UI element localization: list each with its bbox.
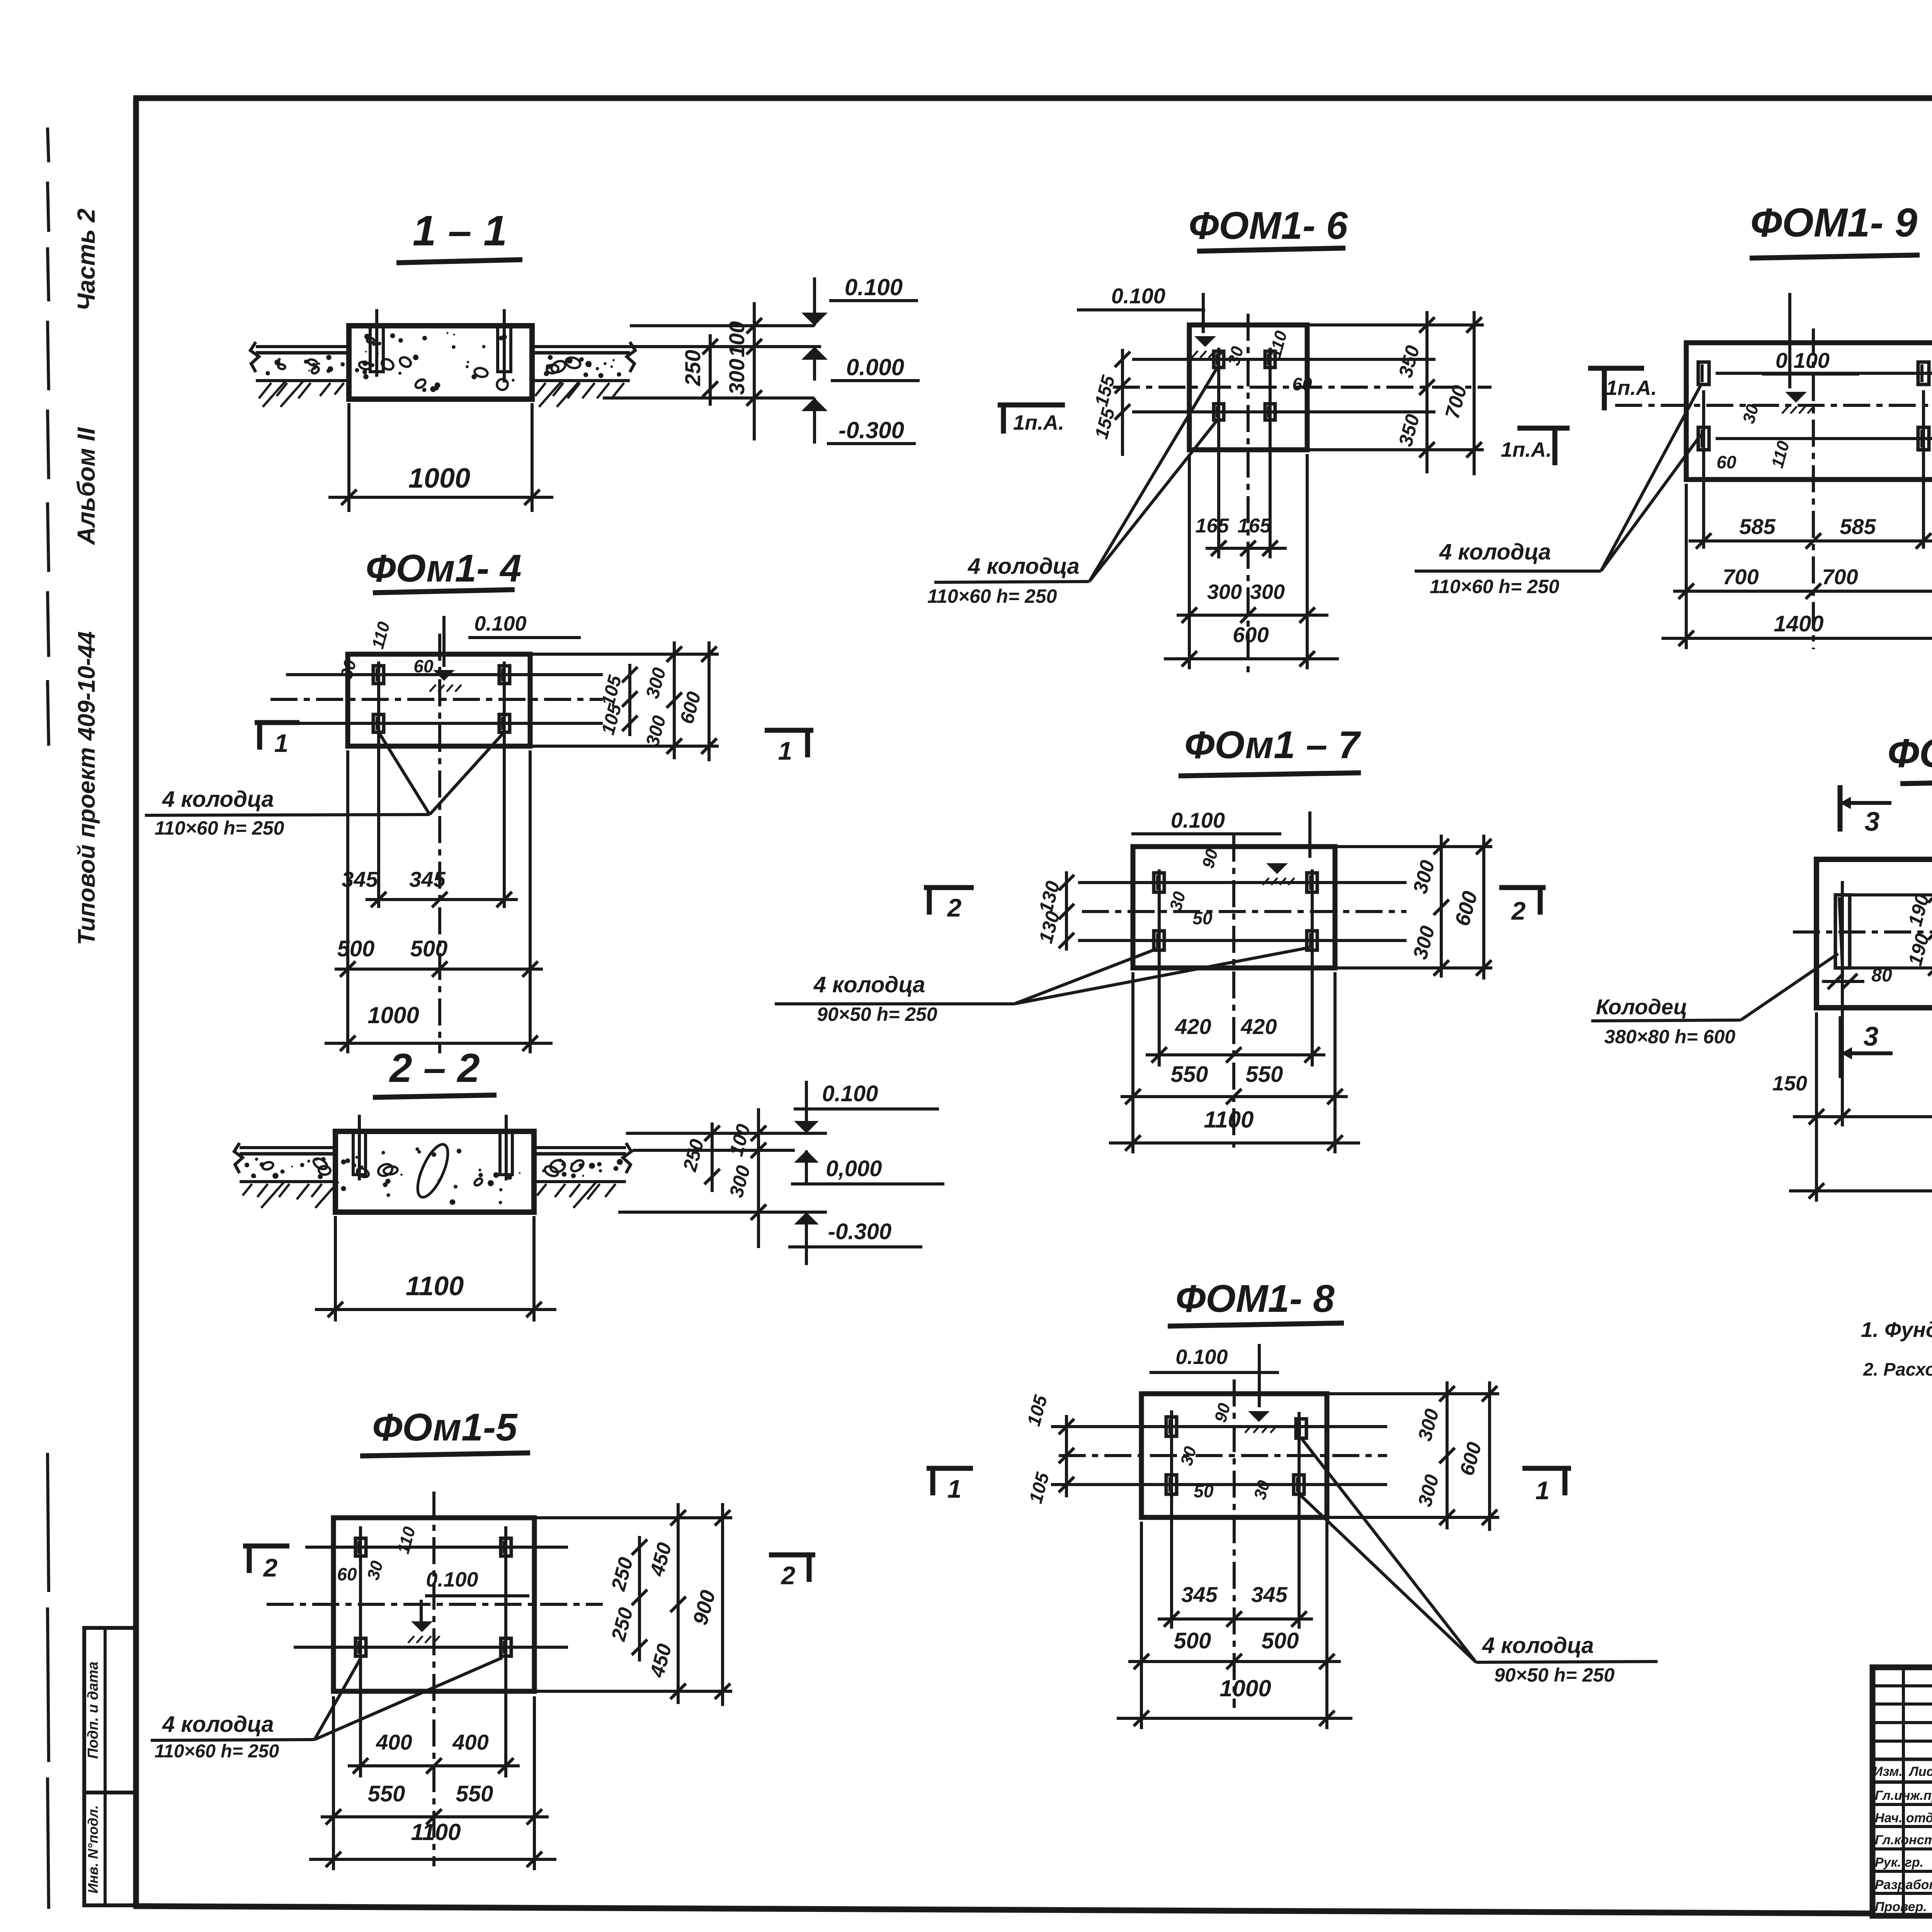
svg-text:550: 550 <box>368 1781 405 1806</box>
plan FOm1-7 bottom dim 1100 <box>1109 1141 1360 1145</box>
svg-text:100: 100 <box>724 321 749 357</box>
svg-text:Инв. N°подл.: Инв. N°подл. <box>85 1805 101 1893</box>
section 1-1 level line 0.000 <box>630 345 821 348</box>
svg-text:1: 1 <box>1536 1476 1550 1505</box>
plan FOM1-6 right dim chain 350 350 <box>1425 311 1429 473</box>
svg-text:165: 165 <box>1238 515 1272 537</box>
svg-text:550: 550 <box>1171 1062 1208 1087</box>
svg-text:250: 250 <box>680 350 705 386</box>
svg-text:0.100: 0.100 <box>1776 348 1830 372</box>
svg-text:Колодец: Колодец <box>1596 995 1687 1019</box>
plan FOM1-8 right dim chain 300 300 <box>1446 1381 1449 1529</box>
plan FOM1-10 bottom dim chain 150 1900 150 <box>1793 1115 1932 1118</box>
plan FOM1-6 bottom dim chain 165 165 <box>1206 547 1287 550</box>
plan FOm1-4 slab rectangle <box>348 654 530 746</box>
plan FOm1-5 bottom dim chain 400 400 <box>348 1764 520 1767</box>
section 1-1 dimension 250 <box>709 334 712 406</box>
plan FOm1-4 section mark 1 right <box>765 728 813 733</box>
plan FOm1-5 right dim 900 <box>721 1503 724 1706</box>
plan FOM1-9 wells <box>1698 362 1709 384</box>
section 1-1 dimension 1000 <box>347 403 350 512</box>
plan FOm1-7 section mark 2 right <box>1499 885 1546 890</box>
svg-text:0.100: 0.100 <box>474 612 526 635</box>
svg-text:60: 60 <box>1716 452 1736 472</box>
title block upper small rows <box>1872 1684 1932 1687</box>
plan FOM1-10 centerline <box>1793 930 1932 934</box>
plan FOM1-8 slab rectangle <box>1141 1394 1327 1517</box>
svg-text:1 – 1: 1 – 1 <box>413 207 507 255</box>
section 2-2 foundation block <box>335 1131 534 1212</box>
section 1-1 elevation mark 0.100 <box>813 277 816 326</box>
plan FOm1-5 wells <box>355 1538 366 1556</box>
plan FOm1-4 bottom dim chain 500 500 <box>335 968 543 971</box>
plan FOm1-7 well axis lines <box>1078 881 1406 884</box>
svg-text:2: 2 <box>263 1553 278 1582</box>
svg-text:345: 345 <box>1251 1582 1287 1607</box>
svg-text:50: 50 <box>1192 908 1213 928</box>
svg-text:Разработ.: Разработ. <box>1875 1878 1932 1892</box>
plan FOm1-4 well axis lines <box>286 673 603 676</box>
margin box Подп. и дата <box>84 1628 136 1793</box>
svg-text:0,000: 0,000 <box>826 1156 882 1181</box>
svg-text:Гл.инж.пр.: Гл.инж.пр. <box>1875 1788 1932 1803</box>
svg-text:1: 1 <box>778 736 793 765</box>
svg-text:Провер.: Провер. <box>1875 1900 1927 1914</box>
svg-text:1000: 1000 <box>367 1002 419 1028</box>
title block signature rows <box>1872 1803 1932 1806</box>
plan FOm1-4 right dim 600 <box>707 641 711 761</box>
svg-text:0.100: 0.100 <box>845 274 903 300</box>
svg-text:Гл.конст.пр: Гл.конст.пр <box>1875 1833 1932 1847</box>
svg-text:1. Фундаменты замаркированы: 1. Фундаменты замаркированы на листах КЖ… <box>1861 1318 1932 1342</box>
svg-text:90×50 h= 250: 90×50 h= 250 <box>817 1003 937 1025</box>
svg-text:1400: 1400 <box>1774 611 1823 636</box>
plan FOM1-8 bottom dim 1000 <box>1117 1717 1352 1720</box>
svg-text:ФОМ1- 8: ФОМ1- 8 <box>1175 1277 1335 1320</box>
plan FOM1-6 bottom dim 600 <box>1164 657 1339 660</box>
svg-text:1000: 1000 <box>1219 1675 1271 1701</box>
plan FOm1-4 section mark 1 left <box>255 720 299 725</box>
svg-text:ФОМ1- 6: ФОМ1- 6 <box>1189 204 1348 247</box>
plan FOM1-6 well axis lines <box>1132 358 1435 361</box>
drawing frame top border <box>133 95 1932 101</box>
section 2-2 elevation -0.300 <box>794 1212 819 1225</box>
svg-text:60: 60 <box>337 1564 357 1584</box>
plan FOM1-6 right dim 700 <box>1473 311 1476 475</box>
plan FOM1-9 section mark left <box>1588 366 1644 371</box>
plan FOM1-6 section mark left <box>998 403 1065 408</box>
plan FOM1-8 section mark 1 left <box>927 1466 973 1471</box>
plan FOm1-5 right dim chain 250 250 <box>638 1536 641 1662</box>
svg-text:ФОм1 – 7: ФОм1 – 7 <box>1184 723 1361 767</box>
svg-text:2 – 2: 2 – 2 <box>389 1046 480 1091</box>
svg-text:4 колодца: 4 колодца <box>968 554 1080 579</box>
svg-text:Подп. и дата: Подп. и дата <box>85 1662 101 1759</box>
plan FOM1-10 section mark 3 bottom <box>1839 1016 1844 1078</box>
section 1-1 dimensions 100 and 300 <box>753 302 756 440</box>
svg-text:585: 585 <box>1739 514 1776 539</box>
section 1-1 left anchor well <box>370 327 383 372</box>
svg-text:0.100: 0.100 <box>426 1568 478 1591</box>
section 2-2 elevation 0.100 <box>805 1081 808 1132</box>
plan FOm1-4 centerlines <box>270 698 603 701</box>
plan FOM1-6 left dim chain 155 155 <box>1121 349 1124 456</box>
section 1-1 right anchor well <box>498 327 511 372</box>
plan FOM1-8 section mark 1 right <box>1522 1466 1571 1471</box>
title block left table verticals <box>1902 1667 1905 1916</box>
title block outer frame <box>1872 1667 1932 1916</box>
plan FOM1-9 slab rectangle <box>1686 343 1932 480</box>
svg-text:345: 345 <box>1181 1582 1218 1607</box>
svg-text:500: 500 <box>337 936 375 961</box>
svg-text:550: 550 <box>456 1781 493 1806</box>
plan FOm1-5 well axis lines <box>305 1546 568 1549</box>
section 2-2 elevation 0.000 <box>794 1150 819 1163</box>
svg-text:60: 60 <box>413 656 434 676</box>
svg-text:110×60 h= 250: 110×60 h= 250 <box>927 585 1057 607</box>
plan FOM1-8 well axis lines <box>1051 1425 1387 1428</box>
plan FOm1-7 section mark 2 left <box>924 885 974 890</box>
plan FOm1-7 right dim 600 <box>1482 835 1485 980</box>
svg-text:2: 2 <box>781 1561 796 1590</box>
svg-text:1: 1 <box>947 1475 962 1503</box>
svg-text:1100: 1100 <box>1204 1107 1253 1133</box>
plan FOm1-5 section mark 2 left <box>243 1544 289 1549</box>
svg-text:585: 585 <box>1840 514 1876 539</box>
plan FOM1-10 bottom dim 2200 <box>1789 1189 1932 1192</box>
svg-text:80: 80 <box>1871 965 1892 986</box>
svg-text:Рук. гр.: Рук. гр. <box>1875 1855 1923 1870</box>
svg-text:1п.А.: 1п.А. <box>1013 411 1064 434</box>
svg-text:Типовой проект 409-10-44: Типовой проект 409-10-44 <box>73 631 100 946</box>
svg-text:345: 345 <box>409 867 446 891</box>
svg-text:-0.300: -0.300 <box>838 417 904 443</box>
section 2-2 dim 250 <box>711 1122 714 1192</box>
svg-text:600: 600 <box>1233 622 1269 647</box>
svg-text:90×50 h= 250: 90×50 h= 250 <box>1494 1664 1615 1686</box>
plan FOm1-7 right dim chain 300 300 <box>1440 835 1443 978</box>
svg-text:1100: 1100 <box>406 1271 464 1301</box>
section 1-1 right floor slab <box>532 345 630 348</box>
plan FOM1-10 left well <box>1835 895 1850 968</box>
plan FOM1-9 bottom dim chain 700 700 <box>1673 590 1932 593</box>
svg-text:0.100: 0.100 <box>1175 1345 1228 1369</box>
plan FOM1-6 section mark right <box>1517 426 1570 431</box>
plan FOM1-9 bottom dim chain 585 585 <box>1689 539 1932 543</box>
section 2-2 right anchor well <box>500 1133 512 1175</box>
svg-text:420: 420 <box>1240 1014 1277 1039</box>
svg-text:110×60 h= 250: 110×60 h= 250 <box>1430 576 1560 597</box>
section 1-1 level line -0.300 <box>603 396 815 400</box>
plan FOM1-6 centerlines <box>1113 386 1492 389</box>
svg-text:500: 500 <box>1262 1628 1299 1653</box>
plan FOM1-6 bottom dim chain 300 300 <box>1177 614 1328 617</box>
svg-text:700: 700 <box>1723 565 1759 589</box>
svg-text:0.100: 0.100 <box>822 1081 878 1106</box>
svg-text:400: 400 <box>376 1730 412 1754</box>
plan FOm1-4 bottom dim 1000 <box>325 1042 553 1045</box>
svg-text:110×60 h= 250: 110×60 h= 250 <box>155 1741 279 1762</box>
drawing frame bottom border <box>133 1906 1872 1913</box>
svg-text:Часть 2: Часть 2 <box>72 209 100 311</box>
plan FOM1-10 well axes <box>1841 881 1844 1126</box>
svg-text:300: 300 <box>1250 580 1285 604</box>
plan FOM1-8 right dim 600 <box>1488 1381 1491 1531</box>
svg-text:0.100: 0.100 <box>1171 808 1225 832</box>
drawing frame left border <box>133 98 139 1908</box>
plan FOM1-8 centerlines <box>1059 1454 1387 1457</box>
plan FOm1-7 wells <box>1154 873 1164 892</box>
plan FOm1-7 bottom dim chain 550 550 <box>1121 1095 1348 1098</box>
svg-text:2. Расход бетона на листе: 2. Расход бетона на листе КЖ-24. <box>1863 1359 1932 1379</box>
svg-text:1000: 1000 <box>408 463 470 494</box>
svg-text:110×60 h= 250: 110×60 h= 250 <box>155 817 284 839</box>
plan FOm1-5 right dim chain 450 450 <box>677 1503 680 1704</box>
section 2-2 level lines <box>626 1132 827 1135</box>
section 2-2 right floor slab <box>534 1146 626 1149</box>
title block header row line <box>1872 1758 1932 1761</box>
svg-text:-0.300: -0.300 <box>828 1219 891 1244</box>
svg-text:2: 2 <box>947 893 962 922</box>
plan FOM1-6 slab rectangle <box>1189 325 1307 450</box>
section 1-1 level line 0.100 <box>630 324 815 327</box>
svg-text:4 колодца: 4 колодца <box>813 972 925 997</box>
plan FOm1-7 bottom dim chain 420 420 <box>1146 1053 1325 1056</box>
plan FOM1-10 left well dim 80 <box>1822 980 1864 983</box>
margin box Инв. № подл. <box>84 1793 136 1905</box>
svg-text:1п.А.: 1п.А. <box>1606 376 1657 400</box>
svg-text:Нач. отд.: Нач. отд. <box>1875 1811 1932 1825</box>
svg-text:Альбом II: Альбом II <box>72 427 100 546</box>
svg-text:4 колодца: 4 колодца <box>162 787 274 812</box>
plan FOm1-5 bottom dim chain 550 550 <box>321 1815 549 1818</box>
plan FOm1-4 bottom dim chain 345 345 <box>366 898 518 901</box>
svg-text:4 колодца: 4 колодца <box>1439 539 1551 565</box>
svg-text:165: 165 <box>1196 515 1230 537</box>
plan FOm1-5 centerlines <box>267 1603 603 1606</box>
plan FOm1-5 bottom dim 1100 <box>309 1858 556 1861</box>
plan FOM1-8 bottom dim chain 500 500 <box>1128 1660 1341 1663</box>
svg-text:3: 3 <box>1864 1021 1879 1051</box>
plan FOm1-7 slab rectangle <box>1133 847 1335 968</box>
plan FOM1-6 wells <box>1214 351 1224 367</box>
plan FOm1-7 left dim chain 130 130 <box>1065 871 1068 951</box>
plan FOm1-5 section mark 2 right <box>769 1553 815 1558</box>
svg-text:1п.А.: 1п.А. <box>1501 438 1552 461</box>
svg-text:50: 50 <box>1194 1481 1214 1501</box>
plan FOm1-4 right dim chain 105 105 <box>628 664 631 736</box>
plan FOm1-4 right dim chain 300 300 <box>673 641 676 759</box>
svg-text:Изм.: Изм. <box>1873 1764 1903 1779</box>
plan FOM1-9 bottom dim 1400 <box>1662 637 1932 640</box>
svg-text:0.000: 0.000 <box>846 354 904 380</box>
plan FOM1-8 wells <box>1166 1417 1177 1436</box>
svg-text:300: 300 <box>1207 580 1242 604</box>
plan FOm1-7 centerlines <box>1082 910 1406 913</box>
section 1-1 foundation block <box>349 326 532 399</box>
plan FOM1-8 bottom dim chain 345 345 <box>1158 1617 1313 1621</box>
section 2-2 dimension 1100 <box>334 1216 337 1321</box>
section 2-2 left floor slab <box>240 1146 335 1149</box>
svg-text:700: 700 <box>1822 565 1858 589</box>
svg-text:500: 500 <box>1174 1628 1211 1653</box>
section 2-2 left anchor well <box>353 1133 366 1175</box>
svg-text:ФОМ1- 10: ФОМ1- 10 <box>1888 731 1932 776</box>
svg-text:150: 150 <box>1772 1072 1807 1095</box>
section 1-1 elevation mark -0.300 <box>813 398 816 444</box>
plan FOM1-9 centerlines <box>1615 404 1932 407</box>
plan FOM1-10 section mark 3 top <box>1838 785 1843 832</box>
plan FOm1-5 slab rectangle <box>333 1518 534 1691</box>
svg-text:Лист: Лист <box>1908 1764 1932 1779</box>
section 1-1 left floor slab <box>256 345 349 348</box>
plan FOm1-4 wells <box>373 666 384 684</box>
svg-text:2: 2 <box>1511 896 1526 925</box>
svg-text:500: 500 <box>410 936 448 961</box>
svg-text:3: 3 <box>1865 806 1880 837</box>
svg-text:300: 300 <box>724 359 749 395</box>
svg-text:ФОм1-5: ФОм1-5 <box>372 1406 518 1449</box>
svg-text:60: 60 <box>1292 374 1312 394</box>
svg-text:4 колодца: 4 колодца <box>162 1712 274 1737</box>
scan paper left edge <box>48 128 49 162</box>
section 1-1 elevation mark 0.000 <box>813 347 816 381</box>
plan FOM1-10 slab rectangle <box>1816 859 1932 1008</box>
svg-text:ФОМ1- 9: ФОМ1- 9 <box>1750 200 1917 245</box>
plan FOM1-9 well axis lines <box>1716 372 1932 375</box>
svg-text:380×80 h= 600: 380×80 h= 600 <box>1604 1026 1735 1048</box>
svg-text:4 колодца: 4 колодца <box>1482 1633 1594 1658</box>
svg-text:1: 1 <box>274 729 289 757</box>
svg-text:1100: 1100 <box>411 1819 461 1845</box>
svg-text:420: 420 <box>1175 1014 1211 1039</box>
svg-text:400: 400 <box>452 1730 488 1754</box>
svg-text:ФОм1- 4: ФОм1- 4 <box>366 547 521 590</box>
plan FOM1-8 left dims 105 105 <box>1065 1415 1068 1497</box>
svg-text:550: 550 <box>1246 1062 1283 1087</box>
section 2-2 dims 100 300 <box>757 1108 760 1248</box>
svg-text:0.100: 0.100 <box>1111 284 1165 308</box>
